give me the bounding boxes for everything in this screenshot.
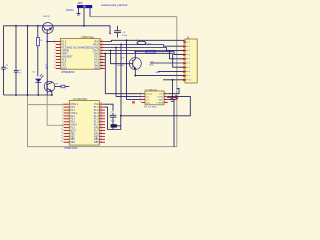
svg-text:RB3: RB3: [70, 139, 75, 141]
svg-text:wskazowka pariNull: wskazowka pariNull: [101, 3, 128, 7]
svg-text:6: 6: [55, 55, 56, 57]
svg-text:P1.2: P1.2: [94, 122, 99, 124]
svg-text:19: 19: [100, 129, 102, 131]
svg-text:AT89C2051: AT89C2051: [64, 146, 78, 150]
svg-text:JP1: JP1: [78, 1, 84, 5]
svg-text:2: 2: [55, 43, 56, 45]
svg-text:GND: GND: [61, 67, 67, 70]
svg-text:2: 2: [140, 95, 141, 97]
svg-text:RA3: RA3: [94, 126, 99, 129]
svg-text:13: 13: [61, 138, 63, 140]
svg-text:16: 16: [100, 138, 102, 140]
svg-text:14: 14: [101, 58, 103, 60]
svg-text:6: 6: [189, 63, 190, 65]
svg-text:RB6: RB6: [94, 139, 99, 141]
svg-text:GND4: GND4: [70, 125, 77, 127]
svg-text:RB2: RB2: [70, 136, 75, 138]
svg-text:5: 5: [189, 59, 190, 61]
svg-text:P1.0: P1.0: [70, 127, 75, 129]
svg-text:2: 2: [62, 106, 63, 108]
svg-text:7: 7: [55, 58, 56, 60]
svg-text:BD135: BD135: [44, 16, 51, 18]
svg-text:1k: 1k: [40, 40, 42, 42]
svg-text:MCL7: MCL7: [70, 130, 77, 132]
svg-text:8: 8: [164, 92, 165, 94]
svg-text:5: 5: [164, 101, 165, 103]
svg-text:10: 10: [189, 80, 191, 82]
svg-text:PIC 1.0.786a: PIC 1.0.786a: [144, 106, 158, 108]
svg-text:BC547: BC547: [118, 65, 125, 67]
svg-text:T1C: T1C: [159, 94, 164, 96]
svg-text:100n: 100n: [122, 35, 128, 37]
svg-text:25: 25: [100, 112, 102, 114]
svg-text:3: 3: [189, 50, 190, 52]
svg-text:20: 20: [101, 40, 103, 42]
svg-text:4: 4: [189, 54, 190, 56]
svg-text:3: 3: [62, 109, 63, 111]
svg-text:AT89C51les: AT89C51les: [81, 36, 95, 39]
svg-text:P1.6: P1.6: [94, 110, 99, 112]
svg-text:7: 7: [62, 120, 63, 122]
svg-text:1: 1: [55, 40, 56, 42]
svg-text:15: 15: [100, 141, 102, 143]
svg-text:P3.4: P3.4: [70, 122, 75, 124]
svg-text:ZW1: ZW1: [159, 99, 164, 101]
svg-text:9: 9: [55, 64, 56, 66]
svg-text:11: 11: [62, 132, 64, 134]
svg-text:GND: GND: [155, 72, 160, 74]
svg-text:P1.3: P1.3: [94, 119, 99, 121]
svg-text:27: 27: [100, 106, 102, 108]
svg-text:PROG: PROG: [66, 8, 74, 12]
svg-text:16: 16: [101, 52, 103, 54]
svg-text:osc1p: osc1p: [146, 94, 153, 96]
svg-text:AT89S8252: AT89S8252: [61, 70, 75, 74]
svg-text:3: 3: [140, 98, 141, 100]
svg-text:P1.4: P1.4: [94, 116, 99, 118]
svg-text:8: 8: [62, 123, 63, 125]
svg-text:22: 22: [100, 120, 102, 122]
svg-text:15: 15: [101, 55, 103, 57]
svg-text:14: 14: [61, 141, 63, 143]
svg-text:RB1: RB1: [70, 133, 75, 135]
svg-text:RB5: RB5: [94, 142, 99, 144]
svg-text:2: 2: [189, 46, 190, 48]
svg-text:4M: 4M: [45, 68, 48, 70]
svg-text:1: 1: [140, 92, 141, 94]
svg-text:12: 12: [101, 64, 103, 66]
svg-text:8: 8: [189, 71, 190, 73]
svg-text:17: 17: [100, 135, 102, 137]
svg-text:5: 5: [62, 115, 63, 117]
svg-text:P3.0: P3.0: [70, 107, 75, 109]
svg-text:P1.1: P1.1: [94, 125, 99, 127]
svg-text:9: 9: [189, 75, 190, 77]
svg-text:28: 28: [100, 103, 102, 105]
svg-text:4: 4: [62, 112, 63, 114]
svg-text:26: 26: [100, 109, 102, 111]
svg-text:OSC1 1: OSC1 1: [70, 104, 79, 106]
svg-text:C.RXB: C.RXB: [157, 102, 164, 104]
svg-text:8: 8: [55, 61, 56, 63]
svg-text:3: 3: [55, 46, 56, 48]
svg-text:11: 11: [101, 67, 103, 69]
svg-text:21: 21: [100, 123, 102, 125]
svg-text:P3.3: P3.3: [70, 119, 75, 121]
svg-text:RB7: RB7: [94, 136, 99, 138]
svg-text:5: 5: [55, 52, 56, 54]
svg-text:13: 13: [101, 61, 103, 63]
svg-text:P1.7: P1.7: [94, 107, 99, 109]
svg-text:OUT1: OUT1: [157, 96, 164, 98]
svg-text:6: 6: [62, 117, 63, 119]
svg-text:RB1: RB1: [95, 67, 100, 70]
svg-text:20: 20: [100, 126, 102, 128]
svg-text:P1.5: P1.5: [94, 113, 99, 115]
svg-text:4: 4: [55, 49, 56, 51]
svg-text:IC2 89C2051: IC2 89C2051: [73, 98, 88, 101]
svg-text:RxD: RxD: [150, 65, 155, 67]
svg-text:RB4: RB4: [70, 142, 75, 144]
svg-text:1: 1: [189, 42, 190, 44]
svg-text:17: 17: [101, 49, 103, 51]
svg-text:10: 10: [54, 67, 56, 69]
svg-text:12: 12: [61, 135, 63, 137]
svg-text:4: 4: [140, 101, 141, 103]
svg-text:7: 7: [164, 95, 165, 97]
svg-text:RA1: RA1: [94, 132, 99, 135]
svg-text:6: 6: [164, 98, 165, 100]
svg-text:9: 9: [62, 126, 63, 128]
svg-text:XTAL2: XTAL2: [70, 112, 78, 115]
svg-text:10: 10: [61, 129, 63, 131]
svg-text:24: 24: [100, 115, 102, 117]
svg-text:19: 19: [101, 43, 103, 45]
svg-text:7: 7: [189, 67, 190, 69]
svg-text:P3.1: P3.1: [70, 110, 75, 112]
svg-text:IC3 MAX232: IC3 MAX232: [145, 89, 158, 92]
svg-text:P3.2: P3.2: [70, 116, 75, 118]
svg-text:18: 18: [101, 46, 103, 48]
svg-text:18: 18: [100, 132, 102, 134]
svg-text:VC1: VC1: [94, 104, 99, 106]
svg-text:23: 23: [100, 117, 102, 119]
svg-text:1: 1: [62, 103, 63, 105]
svg-text:P3.7: P3.7: [94, 130, 99, 132]
